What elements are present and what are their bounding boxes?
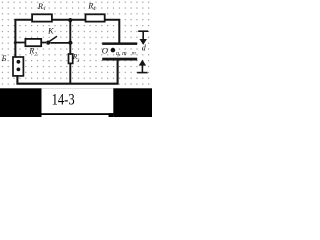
capacitor: bottom plate (102, 58, 137, 61)
svg-text:4: 4 (93, 6, 96, 12)
svg-text:m: m (132, 51, 136, 57)
node: tee of middle branch at left vertical (14, 41, 17, 44)
dimension arrow: top (points down to top plate) (138, 30, 148, 32)
figure number banner: black band (0, 88, 152, 117)
resistor R2 (25, 39, 41, 46)
wire: battery bottom, bottom rail, up to capacitor (17, 60, 117, 84)
capacitor: top plate (102, 42, 137, 45)
svg-text:Б: Б (1, 54, 7, 63)
dimension arrow: bottom (points up to bottom plate) (137, 72, 147, 74)
figure number box: dark patch right of border end (109, 113, 114, 117)
wire: middle branch (15, 42, 46, 44)
wire: top rail with left and right corners (15, 20, 119, 57)
battery B: bottom terminal dot (17, 68, 21, 72)
switch K: pivot dot (46, 41, 50, 45)
node: junction top rail / vertical branch (68, 18, 72, 22)
resistor R4 (86, 14, 105, 21)
wire: vertical branch with R3 (69, 20, 71, 84)
svg-text:2: 2 (34, 51, 37, 57)
resistor R1 (32, 14, 52, 21)
resistor R3 (69, 54, 73, 63)
switch K: lever (49, 36, 57, 41)
figure number banner: white cutout (42, 88, 114, 117)
svg-text:R: R (37, 2, 43, 11)
svg-text:K: K (47, 26, 54, 35)
battery B: box (13, 57, 23, 76)
switch K: wire to junction (50, 42, 71, 44)
charged ball between plates (111, 48, 116, 53)
svg-text:3: 3 (77, 58, 80, 64)
svg-text:14-3: 14-3 (52, 91, 75, 108)
svg-text:1: 1 (43, 6, 46, 12)
figure number box: bottom border line (42, 113, 114, 115)
svg-text:O: O (102, 45, 108, 55)
node: junction middle branch / vertical branch (68, 41, 72, 45)
svg-text:q, m: q, m (116, 50, 127, 57)
battery B: top terminal dot (17, 60, 21, 64)
